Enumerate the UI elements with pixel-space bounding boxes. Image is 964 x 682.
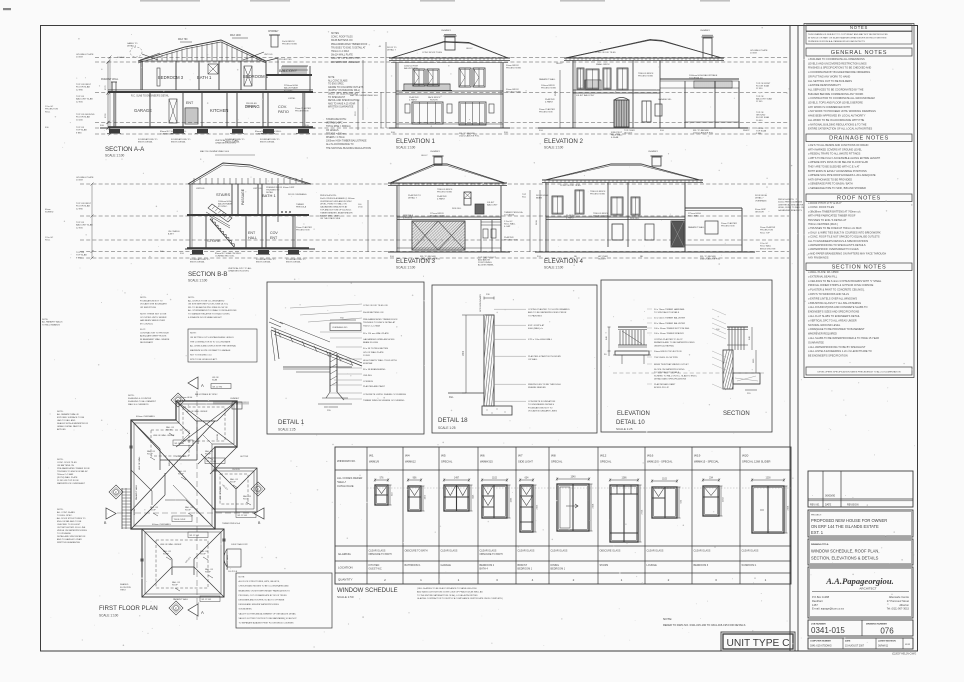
svg-text:ENG'S DETAIL: ENG'S DETAIL	[171, 141, 187, 144]
svg-text:BEDROOM 3: BEDROOM 3	[158, 75, 184, 80]
svg-text:SHADED: SHADED	[120, 583, 129, 586]
svg-text:ANY FINISHINGS: ANY FINISHINGS	[808, 256, 829, 260]
svg-text:TO SPECIALIST: TO SPECIALIST	[328, 96, 346, 99]
svg-text:WRITTEN GUARANTEE: WRITTEN GUARANTEE	[57, 541, 81, 544]
svg-text:100 x 50mm TIMBER SPACER: 100 x 50mm TIMBER SPACER	[654, 332, 684, 335]
svg-text:AND SAGS 0137 EDITION 3 1989 C: AND SAGS 0137 EDITION 3 1989 CODE OF PRA…	[417, 590, 483, 593]
svg-text:9 890: 9 890	[756, 133, 762, 135]
svg-text:TO ENGINEERS DETAILS: TO ENGINEERS DETAILS	[528, 403, 555, 406]
svg-text:E-mail: aapage@icon.co.za: E-mail: aapage@icon.co.za	[812, 607, 844, 611]
svg-text:o AND PAPER BRANDERING ON RAFT: o AND PAPER BRANDERING ON RAFTERS MAY FA…	[808, 251, 886, 255]
svg-text:SECTION: SECTION	[723, 411, 750, 417]
svg-text:FALL OF: FALL OF	[230, 478, 239, 481]
svg-text:NOTE: THESE NOT TO BE: NOTE: THESE NOT TO BE	[140, 314, 167, 316]
svg-text:& CAP: & CAP	[504, 225, 511, 228]
svg-text:DETAIL AND SPECIFICATION: DETAIL AND SPECIFICATION	[57, 535, 86, 538]
svg-text:ALL SETTING OUT TO BE BUILDERS: ALL SETTING OUT TO BE BUILDERS	[808, 79, 852, 83]
svg-text:1457: 1457	[812, 603, 818, 607]
svg-text:GRANO DETAIL PAINT IS: GRANO DETAIL PAINT IS	[57, 425, 82, 428]
svg-text:& PAINT: & PAINT	[409, 98, 418, 101]
svg-text:BOTH ENDS IN EASILY ACCESSIBLE: BOTH ENDS IN EASILY ACCESSIBLE POSITIONS	[808, 169, 867, 173]
svg-text:GUEST WC: GUEST WC	[369, 567, 382, 570]
svg-text:PERGOLA NOTE:: PERGOLA NOTE:	[320, 194, 337, 197]
svg-text:WL 12 905: WL 12 905	[202, 599, 212, 601]
svg-text:o BRUSHING GLASS ITY ALL BALUS: o BRUSHING GLASS ITY ALL BALUSTERING	[808, 301, 861, 305]
svg-text:BY SPEC.: BY SPEC.	[218, 206, 228, 208]
svg-text:DEVELOPERS SPECIFICATION TAKES: DEVELOPERS SPECIFICATION TAKES PRECEDENC…	[818, 371, 901, 374]
svg-text:CLEAR GLASS: CLEAR GLASS	[441, 550, 458, 553]
svg-text:OBSCURE TO BATH: OBSCURE TO BATH	[369, 553, 392, 556]
svg-text:SCALE 1:25: SCALE 1:25	[438, 426, 456, 430]
svg-text:CHIMNEY: CHIMNEY	[230, 398, 240, 400]
svg-text:BUILDER BEFORE COMMENCING ANY: BUILDER BEFORE COMMENCING ANY WORK	[808, 92, 864, 96]
svg-text:A.A.Papageorgiou.: A.A.Papageorgiou.	[825, 576, 894, 586]
svg-text:38x114 WALL PLATE: 38x114 WALL PLATE	[331, 54, 353, 57]
svg-text:PROJECTED: PROJECTED	[279, 59, 292, 61]
svg-text:LOCATION: LOCATION	[338, 566, 353, 570]
svg-text:MAX 790: MAX 790	[178, 38, 188, 41]
svg-text:W12: W12	[600, 454, 607, 458]
svg-text:BALCONY SLAB: BALCONY SLAB	[756, 98, 772, 101]
svg-text:38x38 BATTENS ON: 38x38 BATTENS ON	[331, 39, 353, 42]
svg-text:BEAM FILLING: BEAM FILLING	[363, 341, 378, 344]
svg-text:CONCRETE FOUNDATION: CONCRETE FOUNDATION	[528, 400, 556, 403]
svg-text:3574: 3574	[555, 90, 557, 96]
svg-text:PROJECTIONS: PROJECTIONS	[430, 215, 445, 217]
svg-text:150mm ABOVE FGL: 150mm ABOVE FGL	[459, 135, 480, 138]
svg-text:P.O.Box 11288: P.O.Box 11288	[812, 595, 830, 599]
svg-text:TOP SLAB: TOP SLAB	[76, 129, 87, 132]
svg-text:CLEAR GLASS: CLEAR GLASS	[647, 550, 664, 553]
svg-text:JULIET BALCONY: JULIET BALCONY	[576, 94, 595, 97]
svg-text:LINTELS: LINTELS	[253, 188, 262, 190]
svg-text:38 x 38mm TIMBER BALUSTER: 38 x 38mm TIMBER BALUSTER	[654, 322, 686, 325]
svg-text:10 000: 10 000	[756, 120, 763, 122]
svg-text:COV: COV	[270, 231, 278, 235]
svg-text:W20: W20	[742, 454, 749, 458]
svg-text:PROJECTIONS: PROJECTIONS	[437, 191, 452, 193]
svg-text:12 990: 12 990	[76, 89, 83, 91]
svg-text:SPECIAL: SPECIAL	[441, 460, 453, 464]
svg-text:PARAPET WALL: PARAPET WALL	[539, 78, 556, 81]
svg-text:PROJECTION: PROJECTION	[539, 111, 553, 113]
svg-text:ELEVATION 4: ELEVATION 4	[544, 258, 584, 265]
svg-text:DETAIL 7: DETAIL 7	[387, 48, 397, 51]
svg-text:W6: W6	[480, 454, 485, 458]
svg-text:13 569: 13 569	[76, 57, 83, 59]
svg-text:SCREED: SCREED	[45, 212, 54, 214]
svg-text:& PAINT: & PAINT	[566, 216, 575, 219]
svg-text:1540: 1540	[570, 477, 576, 479]
svg-text:NOTE:: NOTE:	[128, 395, 135, 397]
svg-text:REVISION: REVISION	[847, 503, 859, 506]
svg-text:VALLEY GUTTER AND ALIGNMENT OF: VALLEY GUTTER AND ALIGNMENT OF OBSTACLES…	[239, 612, 297, 615]
svg-text:Alberton: Alberton	[899, 603, 909, 607]
svg-text:BALCONY: BALCONY	[279, 69, 298, 73]
svg-text:BALUSTRADE BY SPEC: BALUSTRADE BY SPEC	[195, 393, 218, 396]
svg-text:1800: 1800	[463, 350, 465, 356]
svg-text:DETAIL AND SPECIFICATION: DETAIL AND SPECIFICATION	[328, 99, 360, 102]
svg-text:GLAZING: GLAZING	[338, 552, 351, 556]
svg-text:WHOP: WHOP	[743, 130, 750, 132]
svg-text:U/S WALL PLATE: U/S WALL PLATE	[76, 176, 94, 179]
svg-text:E: E	[175, 607, 177, 611]
svg-text:W6M12/S - SPECIAL: W6M12/S - SPECIAL	[647, 460, 673, 464]
svg-text:FLOT:: FLOT:	[140, 329, 146, 331]
svg-text:o ALL WATERPROOFING TO BE BY S: o ALL WATERPROOFING TO BE BY SPECIALIST	[808, 345, 866, 349]
svg-text:o COORDINATED BY BUILDER BEFOR: o COORDINATED BY BUILDER BEFORE ORDERING	[808, 70, 870, 74]
svg-text:o ALL FOUNDATIONS AND CONCRETE: o ALL FOUNDATIONS AND CONCRETE SLABS TO	[808, 305, 868, 309]
svg-text:ALL ROOF STRUCTURES TO: ALL ROOF STRUCTURES TO	[57, 517, 86, 520]
svg-text:ENGINEER'S SIZES AND SPECIFICA: ENGINEER'S SIZES AND SPECIFICATIONS	[808, 310, 860, 314]
svg-text:CHOICE: CHOICE	[232, 469, 240, 471]
svg-text:o PLASTER & PAINT TO CONCRETE: o PLASTER & PAINT TO CONCRETE CEILINGS	[808, 288, 864, 292]
svg-text:13 569: 13 569	[363, 355, 370, 357]
svg-text:COPING PLASTED TO SLOPE INWARD: COPING PLASTED TO SLOPE INWARDS	[528, 308, 570, 311]
svg-text:TO UPGRADE: TO UPGRADE	[57, 532, 71, 535]
svg-text:GROOVE: GROOVE	[755, 212, 764, 214]
svg-text:12 905: 12 905	[76, 101, 83, 103]
svg-text:HAVE BEEN APPROVED BY LOCAL AU: HAVE BEEN APPROVED BY LOCAL AUTHORITY	[808, 114, 866, 118]
svg-text:CHIMNEY: CHIMNEY	[268, 31, 279, 33]
svg-text:BATHROOM 1: BATHROOM 1	[405, 564, 422, 567]
svg-text:o NO WORK TO PROCEED UNTIL WOR: o NO WORK TO PROCEED UNTIL WORKING DRAWI…	[808, 109, 876, 113]
svg-text:50 x 50mm TIMBER BALUSTER: 50 x 50mm TIMBER BALUSTER	[654, 317, 686, 320]
svg-text:ALL PARAPET WALLS/: ALL PARAPET WALLS/	[57, 413, 79, 416]
svg-text:GENERAL NOTES: GENERAL NOTES	[831, 50, 887, 56]
svg-text:VALLEY GUTTER POSITION TO BE M: VALLEY GUTTER POSITION TO BE MAINTAINED …	[239, 617, 298, 620]
svg-text:SUNROOM 1: SUNROOM 1	[742, 564, 757, 567]
svg-text:PROJECTION: PROJECTION	[760, 230, 773, 232]
svg-text:REV NO.: REV NO.	[810, 503, 820, 506]
svg-text:FLOW PIPE: FLOW PIPE	[120, 587, 132, 589]
svg-text:50x114 PERGOLA BEAMS @ 500mm: 50x114 PERGOLA BEAMS @ 500mm	[320, 197, 355, 200]
svg-text:COMPACTED SOIL: COMPACTED SOIL	[215, 255, 235, 258]
svg-text:SCALE 1:50: SCALE 1:50	[337, 595, 354, 599]
svg-text:o EXTERNAL BEAM FILL: o EXTERNAL BEAM FILL	[808, 274, 838, 278]
svg-text:o ALL FLAT SLABS TO ENGINEER'S: o ALL FLAT SLABS TO ENGINEER'S DETAIL	[808, 314, 860, 318]
svg-text:W1: W1	[369, 454, 374, 458]
svg-text:27 Piercneuf Street: 27 Piercneuf Street	[887, 599, 909, 603]
svg-text:12 905: 12 905	[76, 227, 83, 229]
svg-text:ON BATTENS ON: ON BATTENS ON	[57, 464, 74, 467]
svg-text:ALL CODES REFER: ALL CODES REFER	[337, 476, 362, 480]
svg-text:TOTAL RISE = 3000mm: TOTAL RISE = 3000mm	[326, 125, 351, 128]
svg-text:TOP OF: TOP OF	[76, 252, 85, 254]
svg-text:BEDROOM 3: BEDROOM 3	[694, 564, 709, 567]
svg-text:o WATERPROOFING TO SPECIALIST': o WATERPROOFING TO SPECIALIST'S DETAILS	[808, 243, 866, 247]
svg-text:W16: W16	[647, 454, 654, 458]
svg-text:RIDGE: RIDGE	[169, 459, 171, 466]
svg-text:OF LEVELS: OF LEVELS	[326, 130, 339, 132]
svg-text:U/S WALL PLATE: U/S WALL PLATE	[750, 49, 768, 52]
svg-text:PROJECTIONS: PROJECTIONS	[541, 87, 556, 89]
svg-text:VIOLATE SITE BOUNDARY: VIOLATE SITE BOUNDARY	[140, 303, 167, 306]
svg-text:W6M1/9: W6M1/9	[369, 460, 380, 464]
svg-text:NATURAL GROUND LEVEL: NATURAL GROUND LEVEL	[808, 323, 841, 327]
svg-text:NOTE:: NOTE:	[140, 297, 147, 299]
svg-text:50 x 70mm TIMBER HANDRAIL: 50 x 70mm TIMBER HANDRAIL	[654, 308, 685, 311]
svg-text:AND TO BE WATERPROOFED PRIOR: AND TO BE WATERPROOFED PRIOR	[528, 311, 567, 314]
svg-text:NOTE: NOTE	[328, 77, 335, 79]
svg-text:NOTE:: NOTE:	[57, 509, 64, 511]
svg-text:INWARDS AND TO BE WATERPROOFED: INWARDS AND TO BE WATERPROOFED	[654, 341, 695, 344]
svg-text:TOP OF: TOP OF	[76, 222, 85, 224]
svg-text:FALL OF: FALL OF	[205, 568, 214, 571]
svg-text:FOUNDATIONS TO: FOUNDATIONS TO	[260, 138, 280, 141]
svg-text:PROJECT:: PROJECT:	[811, 515, 822, 517]
svg-text:ELEVATION 2: ELEVATION 2	[544, 138, 584, 145]
svg-text:GUTTER: GUTTER	[240, 456, 249, 458]
svg-text:PERGOLA: PERGOLA	[296, 205, 307, 208]
svg-text:PROFILED: PROFILED	[246, 103, 257, 105]
svg-text:PROJECTIONS: PROJECTIONS	[506, 67, 521, 69]
svg-text:FLOOR SLAB: FLOOR SLAB	[756, 85, 770, 88]
svg-text:TOP AND BOTTOM OF 50x76mm: TOP AND BOTTOM OF 50x76mm	[320, 209, 351, 212]
svg-text:OCCUPIED UNTIL SEWER: OCCUPIED UNTIL SEWER	[140, 317, 167, 319]
svg-text:ENTIRE SATISFACTION OF ALL LOC: ENTIRE SATISFACTION OF ALL LOCAL AUTHORI…	[808, 127, 872, 131]
svg-text:FLASHING & COUNTER: FLASHING & COUNTER	[128, 397, 152, 400]
svg-text:TIMBER PERGOLA: TIMBER PERGOLA	[222, 522, 240, 525]
svg-text:PRE-FABRICATED TIMBER ROOF: PRE-FABRICATED TIMBER ROOF	[57, 467, 91, 470]
svg-text:WL 12 905: WL 12 905	[238, 515, 248, 517]
svg-text:PLASTER AND PAINT: PLASTER AND PAINT	[363, 385, 386, 388]
svg-text:ON CRADLE: ON CRADLE	[168, 230, 180, 233]
svg-text:WINDOW SCHEDULE: WINDOW SCHEDULE	[337, 588, 398, 594]
svg-text:SECTION A-A: SECTION A-A	[105, 146, 145, 153]
svg-text:50 x 38 TILTING BATTEN: 50 x 38 TILTING BATTEN	[363, 347, 388, 350]
svg-text:SITE TO BE LEVELLED APT.: SITE TO BE LEVELLED APT.	[190, 358, 218, 361]
svg-text:ROOF: ROOF	[230, 482, 237, 484]
svg-text:FALL OF: FALL OF	[243, 495, 252, 498]
svg-text:SCALE 1:100: SCALE 1:100	[396, 146, 416, 150]
svg-text:SPECIAL: SPECIAL	[600, 460, 612, 464]
svg-text:LEVELS, TOPS AND FLOOR LEVELS: LEVELS, TOPS AND FLOOR LEVELS BEFORE	[808, 101, 863, 105]
svg-text:FLOOR SLAB: FLOOR SLAB	[76, 205, 90, 208]
svg-text:ENG'S DETAIL: ENG'S DETAIL	[260, 141, 276, 144]
svg-text:FINISHES & SPECIFICATIONS TO B: FINISHES & SPECIFICATIONS TO BE CHECKED …	[808, 66, 871, 70]
svg-text:BALCONY: BALCONY	[487, 203, 498, 206]
svg-text:CHIMNEY: CHIMNEY	[648, 151, 659, 153]
svg-text:PARAPET WALL: PARAPET WALL	[135, 484, 138, 500]
svg-text:COMPUTER NUMBER: COMPUTER NUMBER	[810, 641, 831, 643]
svg-text:85mm RC SLAB ON WELL: 85mm RC SLAB ON WELL	[160, 130, 187, 133]
svg-text:NOTES: NOTES	[331, 33, 339, 35]
svg-text:DETAIL 10: DETAIL 10	[616, 420, 645, 426]
svg-text:60mm: 60mm	[45, 209, 51, 211]
svg-text:DETAIL 7: DETAIL 7	[755, 197, 764, 200]
svg-text:NOTES: NOTES	[850, 25, 868, 30]
svg-text:ARCHITECT: ARCHITECT	[859, 587, 876, 591]
svg-text:BEDROOM 1: BEDROOM 1	[551, 567, 566, 570]
svg-text:TO GARAGE RELATIVE TO EXACT LE: TO GARAGE RELATIVE TO EXACT LEVEL	[188, 313, 231, 316]
svg-text:THE CONTRACTOR IS TO CO-ORDINA: THE CONTRACTOR IS TO CO-ORDINATE	[190, 340, 231, 343]
svg-text:CONC. ROOF TILES: CONC. ROOF TILES	[57, 462, 77, 464]
svg-text:ROOF: ROOF	[166, 430, 173, 432]
svg-text:WRITTEN GUARANTEE: WRITTEN GUARANTEE	[328, 106, 354, 109]
svg-text:ELEVATION: ELEVATION	[617, 411, 650, 417]
svg-text:TO SEPARATE AGAINST FIRST FLOO: TO SEPARATE AGAINST FIRST FLOOR BRICK CO…	[239, 622, 295, 625]
svg-text:TOP OF FIRST: TOP OF FIRST	[76, 84, 92, 86]
svg-text:12 990: 12 990	[76, 208, 83, 210]
svg-text:GALVANISED WIRE ANCHORS: GALVANISED WIRE ANCHORS	[363, 338, 395, 341]
svg-text:-: -	[845, 493, 846, 497]
svg-text:ROLL WALL: ROLL WALL	[760, 245, 772, 248]
svg-text:o NATIONAL BUILDING REGULATION: o NATIONAL BUILDING REGULATIONS & TO THE	[808, 122, 867, 126]
svg-text:OVERHANG 345: OVERHANG 345	[332, 326, 348, 329]
svg-text:DETAIL 1: DETAIL 1	[278, 419, 305, 426]
svg-text:ALL ROOF STRUCTURES, HIPS, VAL: ALL ROOF STRUCTURES, HIPS, VALLEYS,	[239, 580, 281, 583]
svg-text:TO PAINTING: TO PAINTING	[528, 314, 542, 317]
svg-text:OBSCURE TO BATH: OBSCURE TO BATH	[405, 550, 428, 553]
svg-text:SLOPE ON WATERPROOFING: SLOPE ON WATERPROOFING	[654, 368, 685, 371]
svg-text:UNTOLD: UNTOLD	[264, 54, 273, 56]
svg-text:600mm HIGH: 600mm HIGH	[180, 397, 193, 399]
svg-text:ENG. DETAIL AND TO BE: ENG. DETAIL AND TO BE	[57, 520, 82, 523]
svg-text:ON THE STACK SIDE: ON THE STACK SIDE	[320, 217, 341, 220]
svg-text:13 569: 13 569	[76, 180, 83, 182]
svg-text:85mm RC SLAB ON WELL: 85mm RC SLAB ON WELL	[215, 252, 242, 255]
svg-text:CONTRACTOR TO PROVIDE: CONTRACTOR TO PROVIDE	[140, 331, 169, 334]
svg-text:A SET: A SET	[168, 233, 174, 236]
svg-text:PROJECTION: PROJECTION	[296, 229, 310, 231]
svg-text:SIDE LIGHT: SIDE LIGHT	[518, 460, 533, 464]
svg-text:ALL CONC SLABS: ALL CONC SLABS	[328, 79, 348, 82]
svg-text:TOP OF GROUND: TOP OF GROUND	[76, 114, 95, 116]
svg-text:ALL LEVELS AND LEVELS WITH THE: ALL LEVELS AND LEVELS WITH THE SEVERAL	[190, 345, 237, 348]
svg-text:1 Dia GC: 1 Dia GC	[760, 243, 769, 245]
svg-text:STORE: STORE	[207, 238, 221, 243]
svg-text:DETAILS AND SPECIFICATIONS: DETAILS AND SPECIFICATIONS	[654, 378, 687, 381]
svg-text:PROJECTION: PROJECTION	[721, 225, 735, 227]
svg-text:WITH MARKED COVERS AT GROUND L: WITH MARKED COVERS AT GROUND LEVEL	[808, 147, 862, 151]
svg-text:13 569: 13 569	[750, 53, 757, 55]
svg-text:ROOF: ROOF	[205, 572, 212, 574]
svg-text:AND ABOVE: AND ABOVE	[478, 258, 491, 261]
svg-text:CENTRES AT GRID ABOVE SPEC: CENTRES AT GRID ABOVE SPEC	[320, 200, 353, 203]
svg-text:EXPOSED SURFACE TO BE: EXPOSED SURFACE TO BE	[57, 416, 85, 419]
svg-text:COV.: COV.	[278, 105, 287, 109]
svg-text:PERMISSION FROM A.A. PAPAGEORG: PERMISSION FROM A.A. PAPAGEORGIOU ARCHIT…	[808, 40, 865, 43]
svg-text:SECTION NOTES: SECTION NOTES	[832, 265, 887, 271]
svg-text:FOUNDATIONS TO: FOUNDATIONS TO	[256, 258, 276, 261]
svg-text:30mm DRIP: 30mm DRIP	[755, 209, 767, 211]
svg-text:FGL: FGL	[449, 397, 454, 399]
svg-text:LEVELS AND UNCOVERED RESTRICTI: LEVELS AND UNCOVERED RESTRICTION LINES	[808, 61, 867, 65]
svg-text:& PAINT: & PAINT	[545, 100, 554, 103]
svg-text:EXT. 1: EXT. 1	[811, 530, 824, 535]
svg-text:VERGE ON WATERPROOFING: VERGE ON WATERPROOFING	[57, 529, 87, 532]
svg-text:COMPACTED SOIL: COMPACTED SOIL	[160, 133, 180, 136]
svg-text:BEDROOM 1: BEDROOM 1	[518, 567, 533, 570]
svg-text:'WELU': 'WELU'	[337, 480, 346, 484]
svg-text:E: E	[115, 491, 117, 495]
svg-text:SPECIAL 1268 SLIDER: SPECIAL 1268 SLIDER	[742, 460, 770, 464]
svg-text:o WHERE SOIL PIPE DROP EXCEEDS: o WHERE SOIL PIPE DROP EXCEEDS 1.20m ADE…	[808, 173, 876, 177]
svg-text:o BUILDER TO COORDINATE ALL DI: o BUILDER TO COORDINATE ALL DIMENSIONS	[808, 57, 865, 61]
svg-text:100 x 50mm TIMBER BOTTOM RAIL: 100 x 50mm TIMBER BOTTOM RAIL	[654, 327, 690, 330]
svg-text:CONCRETE LINTEL WHERE OCCURRIN: CONCRETE LINTEL WHERE OCCURRING	[363, 394, 406, 396]
svg-text:NOTE:: NOTE:	[57, 459, 64, 461]
svg-text:TO SPECIALIST DETAILS: TO SPECIALIST DETAILS	[654, 371, 680, 374]
svg-text:JULIET BALCONY: JULIET BALCONY	[231, 543, 248, 546]
svg-text:BALUSTRADE: BALUSTRADE	[404, 67, 418, 70]
svg-text:NOT TO EXCEED 1:10: NOT TO EXCEED 1:10	[190, 355, 212, 357]
svg-text:FOUNDATIONS TO: FOUNDATIONS TO	[190, 258, 210, 261]
svg-text:REFER TO DWG NO. 0341-015-190: REFER TO DWG NO. 0341-015-190 TO 0341-01…	[663, 623, 746, 627]
svg-text:o WHERE WP's PASS IN OR BELOW: o WHERE WP's PASS IN OR BELOW FLOOR SLAB	[808, 160, 868, 164]
svg-text:600mm OVERHANG: 600mm OVERHANG	[152, 523, 171, 526]
svg-text:ROOF EDGE: ROOF EDGE	[755, 195, 768, 197]
svg-text:PASSAGE: PASSAGE	[241, 188, 245, 205]
svg-text:GLAZING CONTRACTOR TO SUPPLY A: GLAZING CONTRACTOR TO SUPPLY A COMPLIANC…	[417, 597, 503, 600]
svg-text:CHIMNEY: CHIMNEY	[430, 151, 441, 153]
svg-text:W7: W7	[518, 454, 523, 458]
svg-text:DOOM: DOOM	[217, 433, 219, 440]
svg-text:ROOF OVERHANG: ROOF OVERHANG	[288, 193, 307, 196]
svg-text:TRUSSES TO ENG.'S DETAIL AT: TRUSSES TO ENG.'S DETAIL AT	[331, 46, 366, 49]
svg-text:(ROTH) WALL PLATE: (ROTH) WALL PLATE	[57, 476, 78, 479]
svg-text:PARAPET WALL: PARAPET WALL	[226, 554, 229, 570]
svg-text:NOTE:: NOTE:	[663, 617, 672, 621]
svg-text:HALL: HALL	[248, 236, 257, 240]
svg-text:ON ERF 144 THE ISLANDS ESTATE: ON ERF 144 THE ISLANDS ESTATE	[811, 524, 879, 529]
svg-text:TOP OF: TOP OF	[76, 96, 85, 98]
svg-text:GULLEY: GULLEY	[598, 258, 607, 260]
svg-text:DRAWING TITLE:: DRAWING TITLE:	[811, 543, 829, 546]
svg-text:13 569 U/S TOP ROOF: 13 569 U/S TOP ROOF	[57, 480, 79, 482]
svg-text:ALL STORMWATER TO FINALLY FROM: ALL STORMWATER TO FINALLY FROM ACROSS	[188, 309, 237, 312]
svg-text:ROOF: ROOF	[172, 585, 179, 587]
svg-text:LINE OF WALL: LINE OF WALL	[138, 455, 141, 470]
svg-text:SECTION B-B: SECTION B-B	[188, 271, 228, 278]
svg-text:BIDIM TWISTRAP WATER OUTLET: BIDIM TWISTRAP WATER OUTLET	[654, 363, 689, 366]
svg-text:PROCEED, CUT OR FABRICATE BY R: PROCEED, CUT OR FABRICATE BY ROOF TRUSS	[239, 594, 288, 597]
svg-text:ANY WORK IS COMMENCED WITH: ANY WORK IS COMMENCED WITH	[808, 105, 850, 109]
svg-text:(INLET OR SLEEVES/PLUG): (INLET OR SLEEVES/PLUG)	[328, 94, 358, 96]
svg-text:OUTSETS AT MPL FULL LINE: OUTSETS AT MPL FULL LINE	[57, 526, 86, 529]
svg-text:FLOOR SLAB: FLOOR SLAB	[76, 86, 90, 89]
svg-text:TRUSSES TO ENG'S DETAIL AT: TRUSSES TO ENG'S DETAIL AT	[363, 321, 396, 324]
svg-text:15 AUGUST 2007: 15 AUGUST 2007	[845, 645, 865, 648]
svg-text:U/S WALL PLATE: U/S WALL PLATE	[76, 53, 94, 56]
svg-text:FOUNDATION NOT TO: FOUNDATION NOT TO	[140, 299, 163, 302]
svg-text:o DPC'S TO WINDOWS AND SILLS: o DPC'S TO WINDOWS AND SILLS	[808, 292, 849, 296]
svg-text:ALL PARAPET WALLS: ALL PARAPET WALLS	[42, 321, 63, 324]
svg-text:WATERPROOF OVERSHEET: WATERPROOF OVERSHEET	[57, 482, 86, 485]
svg-text:FALL OF: FALL OF	[205, 450, 214, 453]
svg-text:CORNICE: CORNICE	[363, 381, 374, 383]
svg-text:LINE OF WALL UNDER: LINE OF WALL UNDER	[160, 543, 182, 546]
svg-text:ROE SILL: ROE SILL	[630, 218, 640, 220]
svg-text:FOUNDATIONS TO: FOUNDATIONS TO	[138, 138, 158, 141]
svg-text:ROLL TOP: ROLL TOP	[760, 232, 770, 234]
svg-text:GULLEY: GULLEY	[624, 132, 633, 134]
svg-text:o CONTRACTOR TO COORDINATE ALL: o CONTRACTOR TO COORDINATE ALL GROUND BE…	[808, 96, 875, 100]
svg-text:DETAIL: DETAIL	[266, 191, 274, 194]
svg-text:IN WHOLE OR PART OR IN ANY MAN: IN WHOLE OR PART OR IN ANY MANNER WHATSO…	[808, 37, 887, 40]
svg-text:FLOOR SLAB: FLOOR SLAB	[756, 116, 770, 119]
svg-text:076: 076	[880, 627, 894, 636]
svg-text:BE ENGINEER'S SPECIFICATION: BE ENGINEER'S SPECIFICATION	[808, 354, 848, 358]
svg-text:6000 (MAX) c/c: 6000 (MAX) c/c	[528, 327, 544, 330]
svg-text:BATH 1: BATH 1	[197, 75, 212, 80]
svg-text:TOP SLAB: TOP SLAB	[76, 254, 87, 257]
svg-text:20mm PLASTER: 20mm PLASTER	[760, 226, 776, 229]
svg-text:GULLY: GULLY	[556, 63, 563, 65]
svg-text:HIGH 'DANTE' WALL TILED WITH: HIGH 'DANTE' WALL TILED WITH	[363, 359, 397, 362]
svg-text:DETAIL 18: DETAIL 18	[438, 417, 468, 424]
